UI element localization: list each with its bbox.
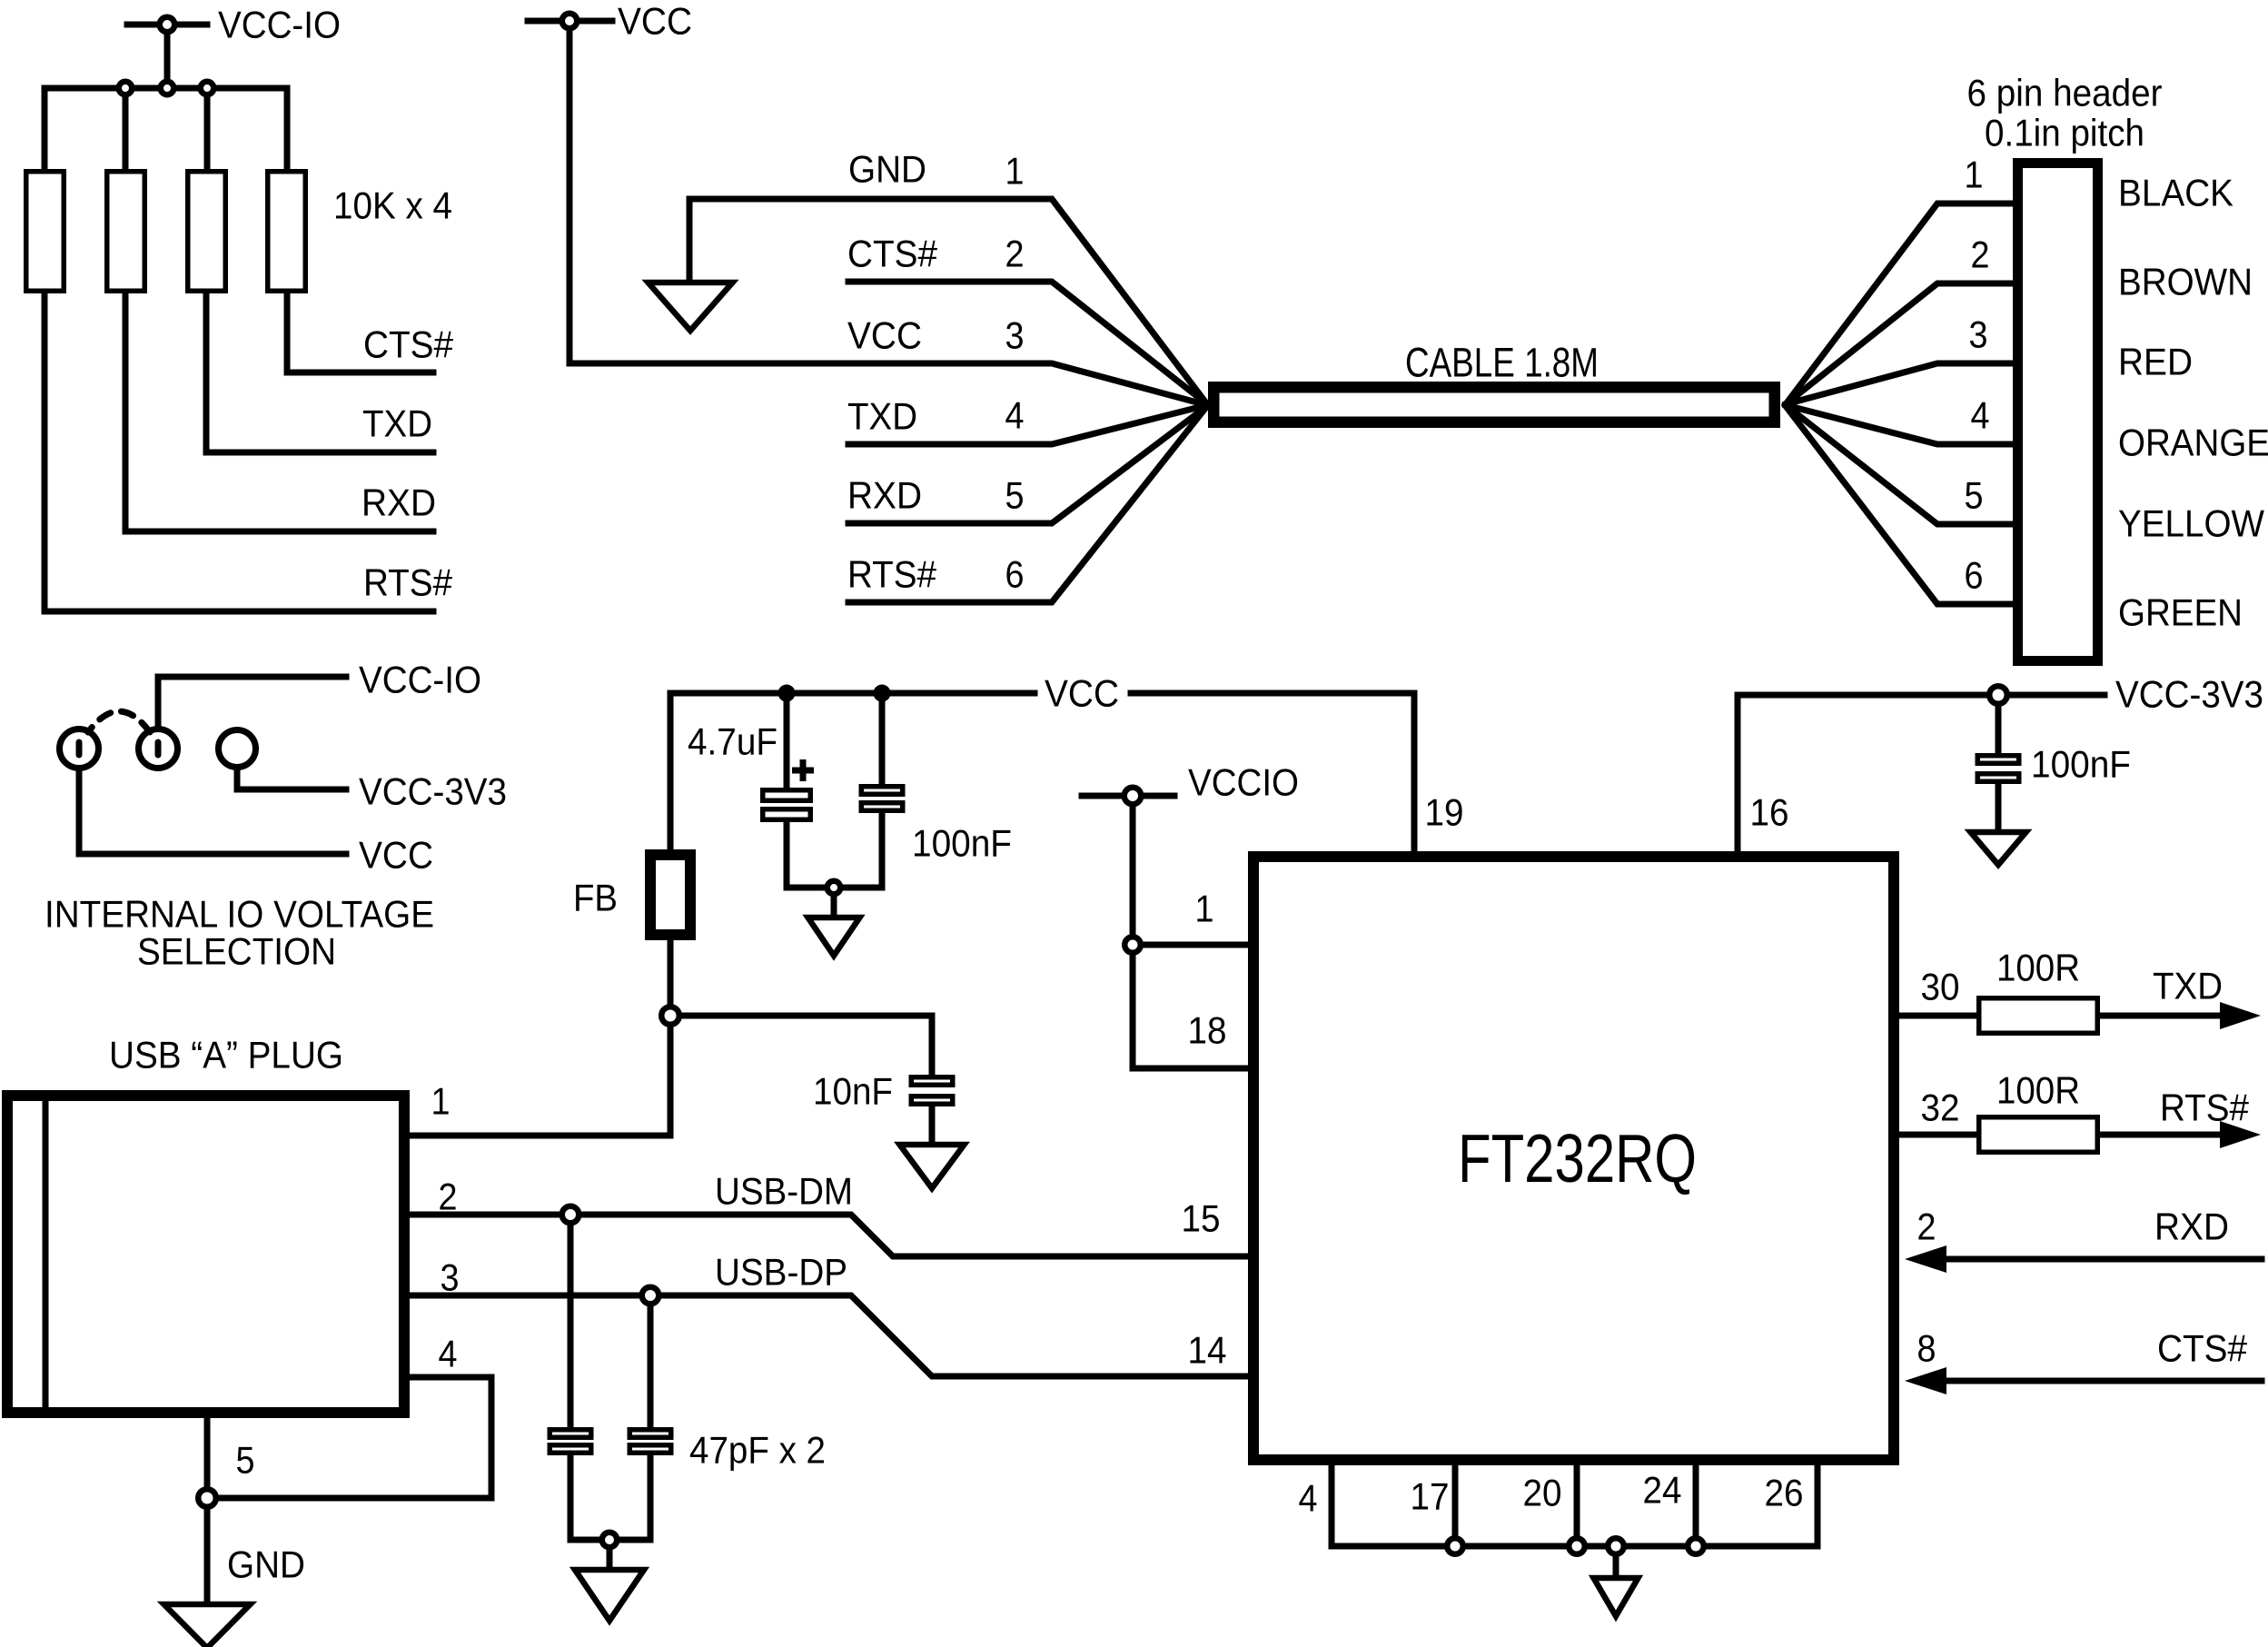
USB pin 3 wire (D+)	[404, 1295, 1253, 1376]
power terminal VCC-3V3	[1989, 686, 2105, 704]
svg-text:VCC-3V3: VCC-3V3	[359, 769, 507, 812]
net label TXD	[362, 402, 432, 444]
svg-text:VCC: VCC	[847, 313, 922, 356]
svg-text:6 pin header: 6 pin header	[1967, 71, 2163, 114]
svg-text:3: 3	[1969, 313, 1988, 355]
svg-text:USB-DM: USB-DM	[715, 1169, 853, 1212]
net label RXD (input)	[2154, 1205, 2229, 1247]
junction at 47pF ground node	[602, 1533, 618, 1570]
svg-text:1: 1	[1195, 887, 1214, 929]
label CABLE 1.8M	[1405, 340, 1599, 386]
cable wire 5 RXD	[848, 406, 1207, 523]
wire VCC rail (right segment to pin 19)	[1131, 693, 1414, 857]
header wire 3	[1786, 363, 2018, 404]
header wire 6	[1786, 406, 2018, 604]
net label GND (USB)	[227, 1543, 305, 1585]
svg-text:CTS#: CTS#	[363, 322, 454, 365]
wire pin 16 to VCC-3V3 terminal	[1738, 695, 1986, 857]
junction at pin 1 tap	[1124, 937, 1141, 953]
connector J1: 6 pin header body	[2018, 164, 2098, 661]
wire pin 1 tap	[1143, 942, 1253, 948]
svg-text:8: 8	[1917, 1326, 1936, 1369]
wire C4 from USB-DM	[568, 1225, 574, 1427]
capacitor C4 47pF	[550, 1430, 591, 1454]
wire VCC-IO distribution bus	[45, 85, 287, 92]
junction on bus at R3	[201, 82, 214, 95]
net label VCCIO	[1188, 760, 1299, 803]
svg-text:3: 3	[441, 1255, 460, 1298]
pin number 19	[1425, 790, 1464, 833]
wire pin 32 to R6	[1894, 1132, 1976, 1138]
net label VCC-IO	[218, 3, 341, 45]
wire pin 4 to ground bus	[1329, 1465, 1335, 1546]
junction ground bus at pin 17	[1447, 1538, 1463, 1554]
svg-text:100R: 100R	[1996, 946, 2080, 988]
caption 6 pin header	[1967, 71, 2163, 114]
cable wire 3 VCC	[569, 363, 1207, 405]
net label VCC	[618, 0, 692, 42]
wire VBUS node to C3	[680, 1016, 932, 1075]
wire C4/C5 bottoms to ground	[570, 1455, 650, 1540]
net label VCC (cable pin 3)	[847, 313, 922, 356]
svg-text:26: 26	[1765, 1471, 1804, 1513]
resistor R4 10K	[268, 172, 306, 292]
svg-text:2: 2	[1005, 232, 1025, 274]
net label TXD (output)	[2153, 964, 2223, 1007]
net label VCC-3V3	[2115, 672, 2263, 715]
net label TXD (cable pin 4)	[847, 394, 917, 437]
svg-text:5: 5	[1005, 473, 1025, 516]
svg-text:YELLOW: YELLOW	[2118, 501, 2264, 544]
ground symbol (C3)	[900, 1145, 965, 1188]
value label 10K x 4	[333, 184, 452, 226]
svg-text:RTS#: RTS#	[363, 561, 453, 603]
svg-text:4: 4	[1005, 393, 1025, 436]
net label RXD (cable pin 5)	[847, 473, 922, 516]
svg-text:VCC: VCC	[359, 833, 433, 876]
jumper pad 2 (common)	[139, 729, 178, 769]
junction on bus at R2	[119, 82, 133, 95]
svg-text:47pF x 2: 47pF x 2	[689, 1428, 826, 1471]
pin number 4 (FT232RQ)	[1299, 1476, 1318, 1519]
capacitor C5 47pF	[629, 1430, 671, 1454]
wire pin 30 to R5	[1894, 1013, 1976, 1019]
resistor R6 100R	[1979, 1117, 2098, 1153]
caption USB "A" PLUG	[109, 1033, 343, 1076]
wire C5 from USB-DP	[648, 1305, 654, 1427]
pull-up resistor network: power terminal VCC-IO	[127, 17, 207, 88]
svg-text:24: 24	[1643, 1468, 1682, 1511]
svg-text:CTS#: CTS#	[2157, 1326, 2248, 1369]
jumper shunt (dashed)	[88, 711, 150, 732]
pin number 20	[1523, 1471, 1562, 1513]
svg-text:CTS#: CTS#	[847, 232, 938, 274]
cable wire 2 CTS#	[848, 282, 1207, 404]
caption 0.1in pitch	[1985, 111, 2144, 154]
wire C3 to ground	[929, 1106, 936, 1145]
ground symbol (USB shield)	[164, 1604, 251, 1647]
wire pin 20 to ground bus	[1574, 1465, 1580, 1546]
svg-text:VCC-IO: VCC-IO	[359, 658, 481, 700]
wire R4 to CTS#	[287, 293, 433, 372]
junction at VBUS node	[661, 1007, 679, 1025]
svg-text:CABLE 1.8M: CABLE 1.8M	[1405, 340, 1599, 386]
value label 100nF (C6)	[2031, 742, 2131, 785]
wire VCCIO to pins 1 and 18	[1133, 807, 1253, 1068]
junction on VCC rail at C1	[781, 688, 793, 699]
svg-text:RXD: RXD	[847, 473, 922, 516]
resistor R3 10K	[188, 172, 226, 292]
capacitor C2 100nF	[861, 787, 903, 811]
USB pin 2 wire (D-)	[404, 1215, 1253, 1256]
cable wire 6 RTS#	[848, 406, 1207, 602]
arrow TXD out	[2220, 1002, 2261, 1029]
wire color label RED	[2118, 340, 2193, 382]
pin number 2 (header)	[1971, 233, 1990, 275]
value label 47pF x 2	[689, 1428, 826, 1471]
svg-text:RED: RED	[2118, 340, 2193, 382]
USB pin 4 wire	[207, 1377, 491, 1498]
svg-text:20: 20	[1523, 1471, 1562, 1513]
wire VCC rail to C2	[879, 693, 886, 784]
value label 10nF	[813, 1069, 893, 1112]
svg-text:100nF: 100nF	[912, 821, 1012, 864]
header wire 4	[1786, 405, 2018, 444]
svg-text:10nF: 10nF	[813, 1069, 893, 1112]
svg-text:BROWN: BROWN	[2118, 260, 2253, 303]
svg-text:100R: 100R	[1996, 1068, 2080, 1111]
svg-text:INTERNAL IO VOLTAGE: INTERNAL IO VOLTAGE	[45, 892, 434, 935]
pin number 3 (header)	[1969, 313, 1988, 355]
net label USB-DM	[715, 1169, 853, 1212]
svg-text:4: 4	[439, 1332, 458, 1374]
pin number 16	[1750, 790, 1789, 833]
svg-text:1: 1	[431, 1079, 451, 1122]
junction on bus at VCC-IO stem	[161, 82, 174, 95]
svg-text:VCC-3V3: VCC-3V3	[2115, 672, 2263, 715]
header wire 2	[1786, 283, 2018, 404]
wire color label GREEN	[2118, 590, 2243, 633]
ground symbol (47pF)	[575, 1570, 644, 1621]
svg-text:32: 32	[1921, 1086, 1960, 1128]
jumper JP1: wire to VCC-IO	[158, 677, 346, 728]
USB pin 5 wire (shield)	[204, 1413, 211, 1498]
wire RXD input	[1945, 1256, 2262, 1263]
wire CTS# input	[1945, 1378, 2262, 1384]
pin number 8 (FT232RQ)	[1917, 1326, 1936, 1369]
svg-text:1: 1	[1965, 153, 1984, 195]
net label GND (cable pin 1)	[848, 147, 926, 190]
svg-text:VCC: VCC	[618, 0, 692, 42]
connector USB "A" PLUG body	[7, 1096, 404, 1413]
ground symbol (C1/C2)	[808, 918, 860, 956]
wire R6 to RTS# output	[2100, 1132, 2223, 1138]
wire R2 to RXD	[125, 293, 433, 531]
net label RXD	[361, 481, 436, 523]
svg-text:4: 4	[1971, 393, 1990, 436]
pin number 6 (header)	[1965, 553, 1984, 596]
svg-text:14: 14	[1188, 1328, 1227, 1371]
resistor R1 10K	[26, 172, 64, 292]
svg-text:GND: GND	[227, 1543, 305, 1585]
svg-text:BLACK: BLACK	[2118, 171, 2233, 213]
wire pin 17 to ground bus	[1452, 1465, 1459, 1546]
value label 4.7uF	[688, 719, 777, 762]
pin number 1 (header)	[1965, 153, 1984, 195]
wire VCC rail to C1	[784, 693, 790, 788]
wire pin 26 to ground bus	[1815, 1465, 1821, 1546]
junction ground bus at pin 20	[1569, 1538, 1585, 1554]
junction on USB-DM at C4	[562, 1206, 579, 1224]
pin number 2 (FT232RQ)	[1917, 1205, 1936, 1247]
svg-text:USB “A” PLUG: USB “A” PLUG	[109, 1033, 343, 1076]
pin number 5 (USB)	[236, 1438, 255, 1481]
svg-text:19: 19	[1425, 790, 1464, 833]
wire color label BLACK	[2118, 171, 2233, 213]
svg-text:USB-DP: USB-DP	[715, 1250, 847, 1293]
resistor R5 100R	[1979, 998, 2098, 1034]
pin number 4 (USB)	[439, 1332, 458, 1374]
wire bus to R2	[123, 88, 129, 171]
wire color label YELLOW	[2118, 501, 2264, 544]
capacitor C3 10nF	[911, 1077, 953, 1105]
header wire 1	[1786, 203, 2018, 404]
svg-text:3: 3	[1005, 313, 1025, 356]
arrow CTS# in	[1905, 1367, 1946, 1394]
pin number 1 (FT232RQ)	[1195, 887, 1214, 929]
svg-text:RTS#: RTS#	[847, 552, 937, 595]
svg-text:GREEN: GREEN	[2118, 590, 2243, 633]
caption SELECTION	[137, 929, 336, 972]
svg-text:5: 5	[236, 1438, 255, 1481]
svg-text:4: 4	[1299, 1476, 1318, 1519]
pin number 3 (USB)	[441, 1255, 460, 1298]
ferrite bead FB: wire from VCC rail	[668, 693, 674, 849]
jumper wire to VCC	[79, 769, 346, 854]
net label RTS#	[363, 561, 453, 603]
IC U1 FT232RQ body	[1253, 857, 1894, 1460]
pin number 26	[1765, 1471, 1804, 1513]
net label VCC (rail)	[1045, 671, 1119, 714]
svg-text:16: 16	[1750, 790, 1789, 833]
svg-text:4.7uF: 4.7uF	[688, 719, 777, 762]
part label FT232RQ	[1458, 1120, 1697, 1196]
svg-text:2: 2	[1971, 233, 1990, 275]
svg-text:VCC-IO: VCC-IO	[218, 3, 341, 45]
pin number 17	[1411, 1474, 1450, 1517]
arrow RTS# out	[2220, 1121, 2261, 1148]
svg-text:30: 30	[1921, 965, 1960, 1007]
svg-text:RXD: RXD	[2154, 1205, 2229, 1247]
net label RTS# (cable pin 6)	[847, 552, 937, 595]
net label VCC-3V3 (jumper)	[359, 769, 507, 812]
junction at capacitor ground node	[827, 881, 841, 918]
wire color label BROWN	[2118, 260, 2253, 303]
value label 100R (R6)	[1996, 1068, 2080, 1111]
wire color label ORANGE	[2118, 421, 2268, 463]
USB pin 1 wire (VBUS)	[404, 1133, 670, 1139]
pin number 1 (USB)	[431, 1079, 451, 1122]
pin number 18	[1188, 1008, 1227, 1051]
pin number 1 (cable)	[1005, 149, 1025, 192]
svg-text:0.1in pitch: 0.1in pitch	[1985, 111, 2144, 154]
value label 100nF	[912, 821, 1012, 864]
arrow RXD in	[1905, 1245, 1946, 1273]
svg-text:SELECTION: SELECTION	[137, 929, 336, 972]
cable wire 4 TXD	[848, 405, 1207, 444]
ground symbol (C6)	[1971, 832, 2026, 865]
jumper pad 3	[219, 730, 256, 768]
svg-text:ORANGE: ORANGE	[2118, 421, 2268, 463]
wire VCC rail (left segment)	[670, 690, 1035, 697]
pin number 5 (header)	[1965, 473, 1984, 516]
svg-text:FB: FB	[573, 876, 618, 918]
reference label FB	[573, 876, 618, 918]
pin number 3 (cable)	[1005, 313, 1025, 356]
svg-text:TXD: TXD	[847, 394, 917, 437]
svg-text:VCC: VCC	[1045, 671, 1119, 714]
junction ground bus at pin 24	[1688, 1538, 1704, 1554]
pin number 30	[1921, 965, 1960, 1007]
net label RTS# (output)	[2160, 1086, 2250, 1128]
junction on VCC rail at C2	[876, 688, 888, 699]
svg-text:RXD: RXD	[361, 481, 436, 523]
svg-text:GND: GND	[848, 147, 926, 190]
ground symbol (GND fan)	[649, 283, 733, 331]
wire R5 to TXD output	[2100, 1013, 2223, 1019]
pin number 5 (cable)	[1005, 473, 1025, 516]
svg-text:15: 15	[1182, 1196, 1221, 1239]
svg-text:2: 2	[1917, 1205, 1936, 1247]
wire C1/C2 bottoms to ground	[787, 813, 882, 888]
pin number 14	[1188, 1328, 1227, 1371]
power terminal VCC (cable side)	[528, 14, 612, 363]
svg-text:17: 17	[1411, 1474, 1450, 1517]
pin number 4 (cable)	[1005, 393, 1025, 436]
wire FB to VBUS node	[668, 940, 674, 1136]
jumper pad 1	[60, 729, 99, 769]
junction at USB ground node	[198, 1489, 216, 1604]
svg-text:FT232RQ: FT232RQ	[1458, 1120, 1697, 1196]
ferrite bead FB	[650, 855, 690, 935]
svg-text:TXD: TXD	[362, 402, 432, 444]
svg-text:VCCIO: VCCIO	[1188, 760, 1299, 803]
wire bus to R3	[204, 88, 211, 171]
pin number 2 (USB)	[439, 1175, 458, 1217]
net label CTS# (input)	[2157, 1326, 2248, 1369]
caption INTERNAL IO VOLTAGE	[45, 892, 434, 935]
svg-text:18: 18	[1188, 1008, 1227, 1051]
junction on USB-DP at C5	[642, 1287, 659, 1305]
net label VCC-IO (jumper)	[359, 658, 481, 700]
header wire 5	[1786, 405, 2018, 524]
pin number 2 (cable)	[1005, 232, 1025, 274]
wire bus to R1	[42, 88, 48, 171]
power terminal VCCIO	[1082, 788, 1174, 805]
svg-text:5: 5	[1965, 473, 1984, 516]
jumper wire to VCC-3V3	[237, 769, 346, 789]
junction ground bus at GND stem	[1608, 1538, 1624, 1578]
wire bus to R4	[284, 88, 291, 171]
value label 100R (R5)	[1996, 946, 2080, 988]
svg-text:6: 6	[1965, 553, 1984, 596]
pin number 15	[1182, 1196, 1221, 1239]
net label USB-DP	[715, 1250, 847, 1293]
ground symbol (IC)	[1594, 1578, 1639, 1616]
net label CTS# (cable pin 2)	[847, 232, 938, 274]
pin number 6 (cable)	[1005, 552, 1025, 595]
wire VCC-3V3 to C6	[1996, 706, 2002, 753]
pin number 4 (header)	[1971, 393, 1990, 436]
wire R1 to RTS#	[45, 293, 433, 611]
svg-text:RTS#: RTS#	[2160, 1086, 2250, 1128]
svg-text:TXD: TXD	[2153, 964, 2223, 1007]
cable wire 1 GND	[689, 199, 1207, 404]
pin number 32	[1921, 1086, 1960, 1128]
svg-text:2: 2	[439, 1175, 458, 1217]
svg-text:100nF: 100nF	[2031, 742, 2131, 785]
polarity mark + for C1	[792, 759, 814, 781]
svg-text:6: 6	[1005, 552, 1025, 595]
net label CTS#	[363, 322, 454, 365]
svg-text:10K x 4: 10K x 4	[333, 184, 452, 226]
capacitor C6 100nF	[1977, 756, 2019, 782]
resistor R2 10K	[107, 172, 145, 292]
wire pin 24 to ground bus	[1693, 1465, 1699, 1546]
wire C6 to ground	[1996, 784, 2002, 832]
net label VCC (jumper)	[359, 833, 433, 876]
wire R3 to TXD	[206, 293, 433, 452]
cable body CABLE 1.8M	[1213, 387, 1775, 422]
ground bus under IC	[1332, 1543, 1817, 1550]
svg-text:1: 1	[1005, 149, 1025, 192]
capacitor C1 4.7uF (electrolytic)	[763, 790, 811, 820]
pin number 24	[1643, 1468, 1682, 1511]
